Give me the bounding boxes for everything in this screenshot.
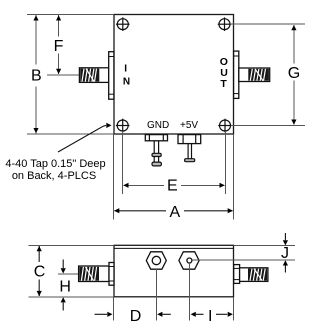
mounting hole top-left: [116, 17, 130, 31]
mounting hole top-right: [218, 17, 232, 31]
case body top view: [114, 15, 234, 135]
wire J extension line bottom (through pin centers): [192, 259, 295, 261]
dimension A: [114, 210, 166, 212]
wire I extension left (hex2 center): [188, 263, 190, 321]
case body side view: [114, 245, 234, 296]
lid line: [114, 247, 234, 249]
connector left (side view): [79, 263, 114, 286]
dimension B: [35, 15, 37, 133]
pin GND feedthrough: [145, 135, 167, 141]
mounting hole bottom-right: [218, 119, 232, 133]
dimension E: [124, 184, 165, 186]
svg-text:GND: GND: [147, 120, 169, 131]
wire side top extension left: [28, 244, 114, 246]
mounting hole bottom-left: [116, 119, 130, 133]
wire top extension line left: [27, 14, 114, 16]
hex nut GND (side view): [146, 252, 166, 269]
svg-text:D: D: [130, 308, 142, 325]
dimension I: [191, 312, 196, 317]
dimension H arrow bottom: [62, 303, 64, 311]
connector J2 OUT (top view): [234, 51, 270, 98]
threads left side connector: [79, 267, 99, 281]
wire E extension line left: [122, 131, 124, 194]
wire J extension line top: [234, 244, 296, 246]
dimension J arrow top: [284, 233, 286, 240]
wire IN connector centerline: [47, 74, 80, 76]
dimension G: [293, 25, 295, 64]
svg-text:F: F: [54, 38, 64, 55]
hex nut +5V (side view): [179, 252, 199, 269]
wire bottom extension line left: [27, 133, 114, 135]
svg-text:C: C: [34, 264, 46, 281]
svg-text:T: T: [220, 78, 227, 90]
wire G extension line top: [230, 23, 305, 25]
svg-text:4-40 Tap 0.15" Deep: 4-40 Tap 0.15" Deep: [5, 158, 105, 170]
threads of OUT connector: [248, 69, 269, 81]
connector right (side view): [234, 265, 268, 284]
svg-text:I: I: [124, 63, 127, 74]
dimension J arrow bottom: [284, 266, 286, 273]
svg-text:on Back, 4-PLCS: on Back, 4-PLCS: [12, 170, 96, 182]
connector J1 IN (top view): [79, 52, 113, 99]
wire I extension right (body edge extended): [233, 297, 235, 321]
dimension F: [58, 15, 60, 74]
wire E extension line right: [224, 131, 226, 194]
svg-text:N: N: [123, 76, 130, 87]
wire D extension left (body edge extended): [112, 297, 114, 321]
svg-text:B: B: [31, 68, 42, 85]
svg-text:I: I: [208, 308, 212, 325]
svg-text:A: A: [170, 204, 181, 221]
leader line to hole: [58, 126, 103, 152]
wire G extension line bottom: [231, 125, 305, 127]
dimension C: [38, 246, 40, 262]
wire D extension right (hex1 center): [155, 269, 157, 321]
dimension D: [95, 313, 108, 315]
wire A extension line right: [233, 134, 235, 220]
wire side connector centerline: [58, 273, 79, 275]
svg-text:J: J: [281, 245, 289, 262]
threads of IN connector: [80, 69, 99, 82]
dimension H arrow top: [62, 260, 64, 269]
svg-text:+5V: +5V: [180, 120, 198, 131]
wire side bottom extension left: [28, 296, 114, 298]
threads right side connector: [248, 269, 267, 281]
svg-text:H: H: [59, 279, 71, 296]
svg-text:O: O: [220, 56, 228, 68]
pin +5V feedthrough: [178, 135, 201, 144]
svg-text:G: G: [288, 65, 300, 82]
wire A extension line left: [113, 134, 115, 220]
svg-text:E: E: [167, 178, 178, 195]
